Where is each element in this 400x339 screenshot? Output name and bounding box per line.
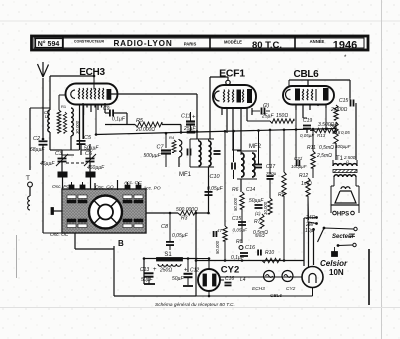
svg-text:2,5mΩ: 2,5mΩ [316, 153, 332, 159]
svg-text:B: B [118, 239, 124, 248]
svg-text:MODÈLE: MODÈLE [224, 40, 242, 45]
svg-text:CY2: CY2 [221, 265, 239, 276]
svg-text:C21: C21 [294, 156, 303, 161]
svg-text:0,05µF: 0,05µF [300, 133, 314, 138]
svg-text:1mΩ: 1mΩ [301, 181, 312, 187]
svg-text:5mΩ: 5mΩ [255, 233, 265, 238]
svg-text:R13: R13 [317, 133, 326, 138]
svg-text:R11: R11 [307, 145, 316, 151]
svg-text:HPS: HPS [337, 212, 349, 218]
svg-text:C10: C10 [210, 174, 221, 180]
svg-text:+: + [184, 268, 188, 274]
svg-text:20.000Ω: 20.000Ω [135, 127, 155, 133]
svg-text:C4: C4 [44, 110, 50, 115]
svg-text:C5: C5 [84, 135, 92, 141]
svg-text:50µF: 50µF [172, 276, 184, 282]
svg-text:10N: 10N [329, 268, 344, 277]
svg-text:CY2: CY2 [286, 286, 296, 292]
svg-text:C2: C2 [33, 136, 40, 142]
svg-text:Secteur: Secteur [332, 234, 355, 240]
svg-text:(1): (1) [255, 211, 261, 216]
svg-text:C6: C6 [85, 151, 93, 157]
svg-text:ECH3: ECH3 [252, 286, 265, 292]
svg-text:1946: 1946 [333, 40, 357, 52]
svg-text:47: 47 [217, 228, 223, 233]
svg-text:50µF: 50µF [141, 277, 153, 283]
svg-text:0,05µF: 0,05µF [172, 233, 189, 239]
svg-text:ECH3: ECH3 [79, 67, 105, 78]
svg-text:R4: R4 [169, 135, 175, 140]
svg-text:0,05µF: 0,05µF [233, 228, 249, 233]
svg-text:R3: R3 [181, 216, 188, 222]
svg-text:Osc. PO: Osc. PO [52, 184, 70, 190]
svg-text:50.000: 50.000 [215, 240, 220, 254]
svg-text:2.000Ω: 2.000Ω [330, 107, 348, 113]
svg-text:50.000: 50.000 [233, 197, 238, 211]
svg-text:80 T.C.: 80 T.C. [252, 40, 282, 51]
svg-text:T: T [26, 175, 30, 182]
svg-text:+: + [153, 267, 157, 273]
svg-text:C14: C14 [246, 187, 255, 193]
svg-text:R6: R6 [232, 187, 239, 193]
svg-text:R8: R8 [236, 239, 243, 245]
svg-text:T1: T1 [336, 156, 344, 162]
svg-text:MF2: MF2 [249, 144, 262, 150]
svg-text:C15: C15 [339, 98, 348, 104]
svg-text:PARIS: PARIS [184, 42, 197, 47]
svg-text:CBL6: CBL6 [294, 69, 320, 80]
svg-text:R7: R7 [254, 219, 261, 225]
svg-text:R10: R10 [265, 250, 274, 256]
svg-text:L4: L4 [240, 277, 246, 283]
svg-text:R1: R1 [61, 104, 67, 109]
svg-text:0,5mΩ: 0,5mΩ [319, 145, 334, 151]
svg-text:C8: C8 [161, 224, 169, 230]
svg-text:R12: R12 [299, 173, 308, 179]
svg-text:400µµF: 400µµF [335, 144, 351, 149]
svg-text:250Ω: 250Ω [159, 268, 172, 274]
svg-text:46µµF: 46µµF [40, 161, 55, 167]
svg-text:10.000: 10.000 [263, 201, 268, 215]
svg-text:C13: C13 [140, 267, 149, 273]
svg-text:C11: C11 [181, 114, 191, 120]
svg-text:C16: C16 [245, 245, 256, 251]
svg-text:ECF1: ECF1 [219, 68, 245, 80]
svg-text:C12: C12 [190, 268, 199, 274]
svg-text:0,05: 0,05 [341, 130, 350, 135]
svg-text:C17: C17 [266, 164, 275, 170]
svg-text:2.500: 2.500 [343, 155, 356, 160]
svg-text:C9: C9 [103, 106, 110, 112]
svg-text:RADIO-LYON: RADIO-LYON [113, 39, 172, 48]
svg-text:Osc. GO: Osc. GO [95, 185, 114, 191]
svg-text:Celsior: Celsior [320, 259, 348, 268]
svg-text:100µµF: 100µµF [291, 164, 307, 169]
svg-text:25µF: 25µF [261, 114, 274, 120]
svg-text:0,1µF: 0,1µF [112, 117, 126, 123]
svg-text:+: + [192, 115, 196, 121]
svg-text:0,05µF: 0,05µF [207, 186, 224, 192]
svg-text:Acc. PO: Acc. PO [142, 186, 161, 192]
svg-text:C19: C19 [303, 118, 312, 124]
svg-text:CONSTRUCTEUR: CONSTRUCTEUR [74, 39, 105, 43]
svg-text:N° 594: N° 594 [38, 40, 60, 48]
svg-text:Acc. OC: Acc. OC [123, 180, 142, 186]
svg-text:ANNÉE: ANNÉE [310, 39, 325, 44]
svg-text:MF1: MF1 [179, 172, 192, 178]
svg-text:500µµF: 500µµF [144, 153, 162, 159]
